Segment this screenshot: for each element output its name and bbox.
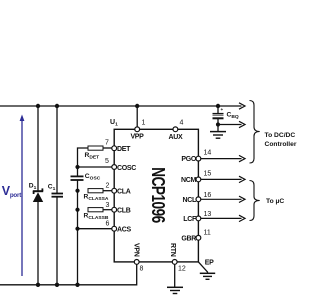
- pin numbers: [105, 120, 211, 273]
- svg-text:COSC: COSC: [117, 165, 136, 172]
- arrow PGO: [201, 158, 242, 160]
- resistor RDET: [85, 146, 104, 161]
- svg-text:COSC: COSC: [85, 173, 101, 182]
- pin 13 LCF: [196, 216, 201, 221]
- capacitor CBQ (polarized): [213, 107, 239, 120]
- capacitor C1: [48, 183, 63, 196]
- svg-text:DET: DET: [117, 146, 131, 153]
- pin circles: [112, 127, 201, 264]
- node bus CLA: [75, 189, 79, 193]
- svg-text:RDET: RDET: [85, 152, 100, 161]
- wire C1 branch vertical: [56, 106, 58, 194]
- ground EP: [200, 273, 215, 279]
- pin 2 CLA: [112, 188, 117, 193]
- wire CLA: [103, 190, 112, 192]
- svg-text:13: 13: [204, 211, 212, 218]
- svg-text:CLA: CLA: [117, 188, 131, 195]
- node bus ACS: [75, 227, 79, 231]
- pin 5 COSC: [112, 165, 117, 170]
- svg-text:D1: D1: [29, 183, 37, 192]
- brace To uC: [250, 181, 260, 221]
- pin 14 PGO: [196, 156, 201, 161]
- arrow CBQ to DC/DC: [239, 121, 245, 127]
- svg-text:RTN: RTN: [169, 243, 176, 257]
- node top rail / CBQ: [216, 104, 220, 108]
- svg-text:1: 1: [142, 120, 146, 127]
- wire RTN stub: [174, 264, 176, 287]
- wire CBQ bottom stub: [217, 119, 219, 131]
- pin names: [117, 134, 214, 267]
- pin 3 CLB: [112, 207, 117, 212]
- svg-text:12: 12: [178, 266, 186, 273]
- svg-text:7: 7: [105, 140, 109, 147]
- wire aux rail to arrow: [218, 124, 242, 126]
- capacitor COSC: [71, 173, 101, 182]
- node bottom rail D1: [36, 283, 40, 287]
- svg-text:2: 2: [106, 182, 110, 189]
- arrow NCM: [201, 178, 242, 180]
- pin 11 GBR: [196, 235, 201, 240]
- svg-text:4: 4: [180, 120, 184, 127]
- node bus CLB: [75, 208, 79, 212]
- pin 4 AUX: [173, 127, 178, 132]
- svg-text:14: 14: [204, 150, 212, 157]
- wire CLB: [103, 209, 112, 211]
- svg-text:NCL: NCL: [183, 197, 198, 204]
- svg-text:Controller: Controller: [265, 141, 297, 148]
- resistor RCLASSA: [84, 189, 109, 202]
- wire bottom rail: [0, 264, 137, 284]
- ground CBQ: [210, 132, 226, 139]
- svg-text:PGO: PGO: [181, 156, 197, 163]
- svg-text:CLB: CLB: [117, 207, 131, 214]
- svg-text:5: 5: [105, 158, 109, 165]
- svg-text:GBR: GBR: [181, 235, 196, 242]
- pin 1 VPP: [135, 127, 140, 132]
- pin 12 RTN: [172, 260, 177, 265]
- pin 7 DET: [112, 146, 117, 151]
- svg-text:AUX: AUX: [169, 134, 184, 141]
- svg-text:C1: C1: [48, 183, 56, 192]
- svg-text:15: 15: [204, 171, 212, 178]
- svg-text:VPN: VPN: [133, 243, 140, 257]
- svg-text:U1: U1: [110, 119, 118, 128]
- ground RTN: [167, 287, 183, 293]
- diode D1 (zener): [29, 183, 43, 202]
- node top rail / VPP: [135, 104, 139, 108]
- pin 16 NCL: [196, 197, 201, 202]
- arrow NCL: [201, 198, 242, 200]
- svg-text:To µC: To µC: [266, 198, 284, 205]
- wire top rail: [0, 105, 242, 107]
- arrows to DC/DC and uC: [201, 103, 245, 222]
- node top rail / D1: [36, 104, 40, 108]
- wire COSC: [78, 166, 112, 168]
- wire CBQ top stub: [217, 106, 219, 113]
- svg-text:3: 3: [106, 202, 110, 209]
- svg-text:+: +: [221, 107, 224, 112]
- node bus COSC: [75, 165, 79, 169]
- wire class-resistor bus vertical: [78, 148, 89, 176]
- node top rail / C1: [55, 104, 59, 108]
- svg-text:CBQ: CBQ: [227, 112, 239, 121]
- wire EP diagonal: [198, 262, 207, 273]
- pin 8 VPN: [134, 260, 139, 265]
- svg-text:NCP1096: NCP1096: [147, 167, 168, 223]
- svg-text:8: 8: [140, 266, 144, 273]
- svg-text:LCF: LCF: [183, 216, 197, 223]
- svg-text:RCLASSA: RCLASSA: [84, 193, 109, 202]
- svg-text:6: 6: [106, 220, 110, 227]
- wire DET: [103, 147, 112, 149]
- brace To DC/DC: [250, 101, 260, 164]
- wire D1 branch vertical: [37, 106, 39, 191]
- arrow LCF: [201, 217, 242, 219]
- svg-text:Vport: Vport: [2, 184, 21, 199]
- pin 6 ACS: [112, 226, 117, 231]
- svg-text:ACS: ACS: [117, 226, 132, 233]
- svg-text:VPP: VPP: [130, 134, 144, 141]
- svg-text:NCM: NCM: [181, 177, 197, 184]
- svg-text:EP: EP: [205, 260, 214, 267]
- Vport arrow (blue): [20, 115, 25, 277]
- wire ACS: [78, 228, 112, 230]
- node bottom rail C1: [55, 283, 59, 287]
- resistor RCLASSB: [84, 208, 109, 222]
- node CBQ bottom: [216, 122, 220, 126]
- svg-text:To DC/DC: To DC/DC: [265, 132, 296, 139]
- arrow rail to DC/DC: [239, 103, 245, 109]
- wire VPP stub: [136, 106, 138, 127]
- pin 15 NCM: [196, 177, 201, 182]
- IC U1 NCP1096 body: [114, 129, 198, 262]
- svg-text:11: 11: [204, 230, 211, 237]
- node bottom rail bus: [75, 283, 79, 287]
- svg-text:16: 16: [204, 192, 212, 199]
